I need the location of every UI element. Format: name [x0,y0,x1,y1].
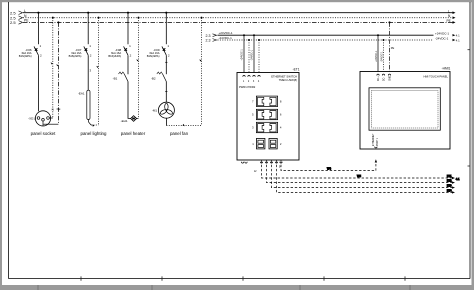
wire +24VDC-1 bus [218,34,434,36]
pin PWR2 - [258,75,260,76]
svg-text:+24VDC-1: +24VDC-1 [375,50,378,62]
wire -24VDC-1 bus [218,39,434,41]
svg-text:GND: GND [390,76,392,81]
svg-text:-M1: -M1 [152,109,157,113]
wire arrow N lighting [96,66,98,68]
junction dot -24 PWR1 [248,39,250,41]
junction dot N / heater [137,17,139,19]
pin bottom port6 [265,162,267,163]
svg-text:-24VDC-1: -24VDC-1 [380,51,383,62]
svg-text:-B2: -B2 [151,77,156,81]
svg-text:+24VDC-1: +24VDC-1 [435,32,449,36]
junction dot N / fan return [200,17,202,19]
wire L drop to lamp [87,55,89,90]
breaker F08 [127,13,129,45]
pin ETHERNET PORT 1 [375,147,377,148]
svg-text:-HMI1: -HMI1 [442,67,451,71]
wire PWR1+ drop [243,35,245,72]
svg-text:L: L [448,9,450,13]
svg-text:2.3: 2.3 [206,39,211,43]
wire arrow N socket [51,62,53,64]
svg-text:-ET1: -ET1 [293,68,300,72]
breaker F09 [165,13,167,45]
cable W4 switch port1 to HMI [281,161,376,171]
svg-text:PE: PE [24,19,29,23]
HMI touch panel box [360,72,450,150]
wire L drop to thermostat B2 [165,55,167,74]
svg-text:panel socket: panel socket [31,131,56,136]
svg-text:-EA1: -EA1 [78,92,85,96]
svg-text:W4: W4 [327,167,331,171]
wire arrow lamp N [92,124,94,126]
wire arrow N heater [136,59,138,61]
wire N bus [23,17,453,19]
fan M1 [158,102,174,118]
junction dot L / branch F06 [37,12,39,14]
wire lamp return [88,120,91,126]
wire fan N return [165,118,167,125]
pin PWR2 + [253,75,255,76]
pin GND [388,74,390,75]
svg-text:B16(2kPA): B16(2kPA) [19,54,32,58]
breaker F06 [37,13,39,45]
wire PE bus [23,21,453,23]
svg-text:ETHERNET SWITCH: ETHERNET SWITCH [271,74,297,78]
svg-text:panel lighting: panel lighting [81,131,107,136]
pin DC+ [377,74,379,75]
junction dot N / lighting [97,17,99,19]
svg-text:PE: PE [447,19,451,23]
wire PWR2- drop [258,40,260,73]
pin bottom port8 [275,162,277,163]
pin DC- [382,74,384,75]
wire arrow fan N [182,124,184,126]
lamp EA1 [87,90,90,119]
wire L drop to socket [37,55,39,111]
wire heater to N [137,118,139,120]
svg-text:panel fan: panel fan [170,131,189,136]
svg-text:+24VDC-1: +24VDC-1 [219,31,233,35]
junction dot -24 PWR2 [258,39,260,41]
svg-text:4.1: 4.1 [456,34,460,38]
port 2 [269,138,277,149]
socket outlet XD1 [35,111,50,126]
pin bottom G2 [245,162,247,163]
svg-text:+24VDC-1: +24VDC-1 [241,49,244,61]
svg-text:W5: W5 [357,174,361,178]
wire PWR2+ drop [253,35,255,72]
junction dot L / branch F09 [165,12,167,14]
svg-text:4.1: 4.1 [456,38,460,42]
port pair 5/6 [256,109,277,119]
wire arrow N fan riser [199,59,201,61]
pin bottom port7 [270,162,272,163]
wire L drop to fan [165,82,167,103]
svg-text:B16(2kPA): B16(2kPA) [69,54,82,58]
port pair 7/8 [256,96,277,106]
pin bottom port1 [280,162,282,163]
heater EH1 [131,116,137,122]
pin PWR1 + [243,75,245,76]
svg-text:PE: PE [57,107,61,111]
svg-text:B16(2kPA): B16(2kPA) [108,54,121,58]
port pair 3/4 [256,122,277,132]
port 1 [257,138,265,149]
junction dot N / socket [52,17,54,19]
pin PWR1 - [248,75,250,76]
cable W5 port5 to ET1 [262,161,453,179]
svg-text:4.1: 4.1 [456,177,460,181]
HMI screen [369,88,440,130]
wire L drop to heater [128,82,131,119]
junction dot +24 PWR2 [253,34,255,36]
junction dot L / branch F08 [127,12,129,14]
wire HMI DC+ drop [377,35,379,71]
wire L bus [23,12,453,14]
svg-text:-B1: -B1 [113,77,118,81]
wire arrow PE socket [56,64,58,66]
svg-text:-24VDC-1: -24VDC-1 [219,36,233,40]
svg-text:ET3: ET3 [447,185,452,188]
wire N drop heater [138,18,140,119]
svg-text:PWR1 PWR2: PWR1 PWR2 [239,85,256,89]
junction dot +24 HMI [377,34,379,36]
wire PWR1- drop [248,40,250,73]
junction dot L / branch F07 [87,12,89,14]
junction dot PE / socket [57,21,59,23]
ethernet switch U=ET1 box [237,73,299,161]
svg-text:DC-: DC- [384,77,386,81]
cable W8 port8 to ET4 [277,161,453,193]
thermostat contact B1 [124,74,128,82]
svg-text:-EH1: -EH1 [121,119,128,123]
wire N drop to socket [52,18,54,118]
junction dot +24 PWR1 [243,34,245,36]
svg-text:-24VDC-1: -24VDC-1 [251,49,254,60]
wire HMI PE drop [389,22,391,71]
node L bus end arrow [453,11,456,14]
wire PE drop to socket [57,22,59,124]
wire N riser fan [201,18,203,126]
junction dot -24 HMI [383,39,385,41]
svg-text:ET2: ET2 [447,180,452,183]
wire N drop lighting [98,18,100,125]
svg-text:DC+: DC+ [378,76,380,81]
wire L drop to thermostat B1 [127,55,129,74]
svg-text:ET4: ET4 [447,189,452,192]
svg-text:TMEO-USW(8): TMEO-USW(8) [279,78,297,82]
svg-text:-24VDC-1: -24VDC-1 [435,36,449,40]
svg-text:L: L [24,9,26,13]
svg-text:panel heater: panel heater [121,131,146,136]
pin bottom G1 [241,162,243,163]
cable W6 port6 to ET2 [267,161,453,183]
cable W7 port7 to ET3 [272,161,453,188]
node PE bus end arrow [453,21,456,24]
svg-text:B16(2kPA): B16(2kPA) [147,54,160,58]
svg-text:PE: PE [391,46,395,50]
svg-text:PORT 1: PORT 1 [377,137,379,146]
svg-text:2.5: 2.5 [10,20,16,25]
svg-text:ET1: ET1 [447,175,452,178]
svg-text:ETHERNET: ETHERNET [373,133,375,146]
svg-text:HMI TOUCH PANEL: HMI TOUCH PANEL [424,74,449,78]
thermostat contact B2 [163,74,167,82]
breaker F07 [87,13,89,45]
node N bus end arrow [453,16,456,19]
wire HMI DC- drop [383,40,385,72]
junction dot PE / HMI gnd [388,21,390,23]
svg-text:2.3: 2.3 [206,34,211,38]
pin bottom port5 [260,162,262,163]
svg-text:-XD1: -XD1 [28,117,35,121]
svg-text:N: N [52,108,54,112]
